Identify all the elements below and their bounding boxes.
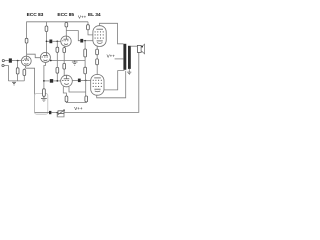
capacitor C1 input	[9, 58, 12, 62]
capacitor C2 coupling to V2a	[49, 40, 52, 44]
node grid V2a	[56, 40, 58, 42]
resistor R anode V1a	[25, 38, 28, 43]
wire anode EL34 top to transformer	[100, 23, 124, 44]
capacitor C3 coupling to EL34 top	[80, 39, 83, 43]
ground symbol bus	[72, 61, 78, 66]
wire to EL34 bottom	[96, 65, 98, 75]
transformer primary	[123, 44, 126, 70]
feedback line bottom	[35, 111, 50, 113]
wire grid leak	[17, 61, 19, 68]
wire rail to resistor V1b	[46, 22, 48, 26]
box feedback network	[35, 94, 48, 115]
resistor R anode V2a	[65, 23, 68, 28]
resistor R bias right	[85, 96, 88, 102]
transformer secondary	[128, 46, 131, 69]
node anode V1b	[46, 40, 48, 42]
wire cap to grid V2a	[52, 40, 61, 42]
svg-text:ECC 85: ECC 85	[57, 12, 74, 18]
potentiometer arrow	[57, 110, 65, 116]
input terminal top	[2, 60, 4, 62]
wire anode V2a branch to coupling cap	[66, 31, 80, 41]
wire cap to grid	[12, 60, 22, 62]
node cathode V1b junction	[43, 80, 45, 82]
input terminal bottom	[2, 64, 4, 66]
pentode EL34 top	[93, 26, 106, 47]
capacitor C6 feedback	[49, 111, 51, 114]
resistor R divider EL34 bottom grid	[84, 67, 87, 74]
resistor R screen EL34 top	[87, 25, 90, 30]
wire to bus	[56, 52, 58, 60]
wire V2b cathode right to bias chain	[69, 87, 86, 92]
node grid EL34 top	[84, 40, 86, 42]
resistor R screen EL34 bottom	[96, 59, 99, 65]
wire V2b cathode left	[63, 86, 66, 96]
wire coupling V1b anode	[47, 40, 50, 42]
resistor R anode V1b	[45, 26, 48, 32]
ground symbol cathode V1b	[41, 96, 47, 101]
capacitor C4 coupling to V2b	[50, 79, 53, 83]
wire bias bottom bar	[66, 101, 86, 104]
wire grid leak V2a	[56, 41, 58, 47]
node grid V1a	[17, 60, 19, 62]
wire cathode V1b	[44, 62, 46, 88]
triode V1b	[40, 52, 50, 62]
wire cathode V2a	[64, 46, 65, 47]
wire to V2b top	[63, 69, 65, 76]
wire grid leak EL34 top	[84, 41, 86, 49]
wire cap to grid V2b	[53, 80, 61, 82]
resistor R grid leak EL34 top	[84, 49, 87, 57]
wire between cathode resistors	[96, 55, 98, 59]
node grid V2b	[56, 80, 58, 82]
wire rail to resistor V2a	[65, 21, 67, 24]
wire cap to potentiometer	[51, 111, 58, 113]
pentode EL34 bottom	[91, 75, 104, 96]
svg-text:V++: V++	[78, 15, 87, 20]
speaker	[137, 45, 141, 52]
resistor R grid leak V1a	[16, 68, 19, 74]
wire to ground bar	[17, 74, 19, 81]
ground bus	[51, 60, 86, 62]
wire anode V1a	[26, 43, 28, 56]
wire anode EL34 bottom to transformer	[104, 71, 124, 90]
svg-text:ECC 83: ECC 83	[27, 12, 44, 18]
wire V++ to primary	[115, 58, 124, 60]
node bus left	[50, 60, 52, 62]
node wiper	[56, 112, 58, 114]
wire cathode to bus	[63, 53, 65, 64]
capacitor C5 coupling to EL34 bottom	[78, 79, 81, 83]
ground symbol input stage	[12, 82, 16, 85]
wire grid leak to bus	[84, 57, 86, 67]
triode V2a ECC85	[61, 36, 71, 46]
wire secondary bottom to ground	[128, 69, 130, 72]
potentiometer R feedback	[58, 111, 64, 114]
ground symbol transformer	[127, 72, 131, 75]
wire input	[4, 60, 8, 62]
wire screen grid	[88, 30, 93, 35]
wire secondary top to speaker	[131, 45, 138, 47]
resistor R cathode V2a	[63, 48, 66, 53]
wire bus to divider	[56, 61, 58, 68]
wire potentiometer to speaker	[64, 52, 139, 112]
svg-text:V++: V++	[107, 53, 116, 58]
resistor R grid leak V2a	[56, 47, 59, 52]
svg-text:EL 34: EL 34	[88, 12, 101, 18]
wire grid line V2b	[44, 80, 50, 82]
wire input terminal bottom	[4, 66, 8, 81]
wire top rail V++	[27, 22, 88, 39]
wire cathode EL34 top	[96, 46, 98, 49]
wire V2b anode to coupling cap	[72, 79, 78, 81]
wire anode V2a down	[65, 27, 67, 36]
wiper loop	[57, 113, 64, 117]
wire cap to EL34 bottom grid	[81, 79, 91, 81]
resistor R bias left	[65, 96, 68, 102]
triode V2b ECC85	[61, 75, 73, 87]
wire cap to EL34 grid	[83, 40, 93, 42]
wire divider to grid line EL34 bottom	[84, 74, 86, 96]
node grid EL34 bottom	[85, 80, 87, 82]
resistor R cathode EL34 top	[96, 49, 99, 55]
wire feedback to cathode V1a	[26, 68, 35, 112]
wire V1a anode to V1b grid	[27, 54, 41, 58]
wire anode V1b	[46, 32, 48, 53]
resistor R cathode follower V2b	[63, 63, 66, 69]
ground bar input stage	[8, 80, 24, 82]
resistor R cathode V1b	[43, 89, 46, 97]
node speaker terminal	[141, 46, 143, 48]
triode V1a	[21, 56, 31, 66]
wire cathode V1a	[24, 66, 25, 70]
svg-text:V++: V++	[74, 106, 83, 111]
wire rail to screen resistor	[87, 22, 89, 25]
resistor R divider V2b grid	[56, 67, 59, 73]
wire cathode resistor to ground	[23, 76, 25, 81]
wire cathode EL34 bottom	[97, 71, 126, 98]
resistor R cathode V1a	[23, 69, 26, 75]
wire divider to grid line	[56, 73, 58, 81]
